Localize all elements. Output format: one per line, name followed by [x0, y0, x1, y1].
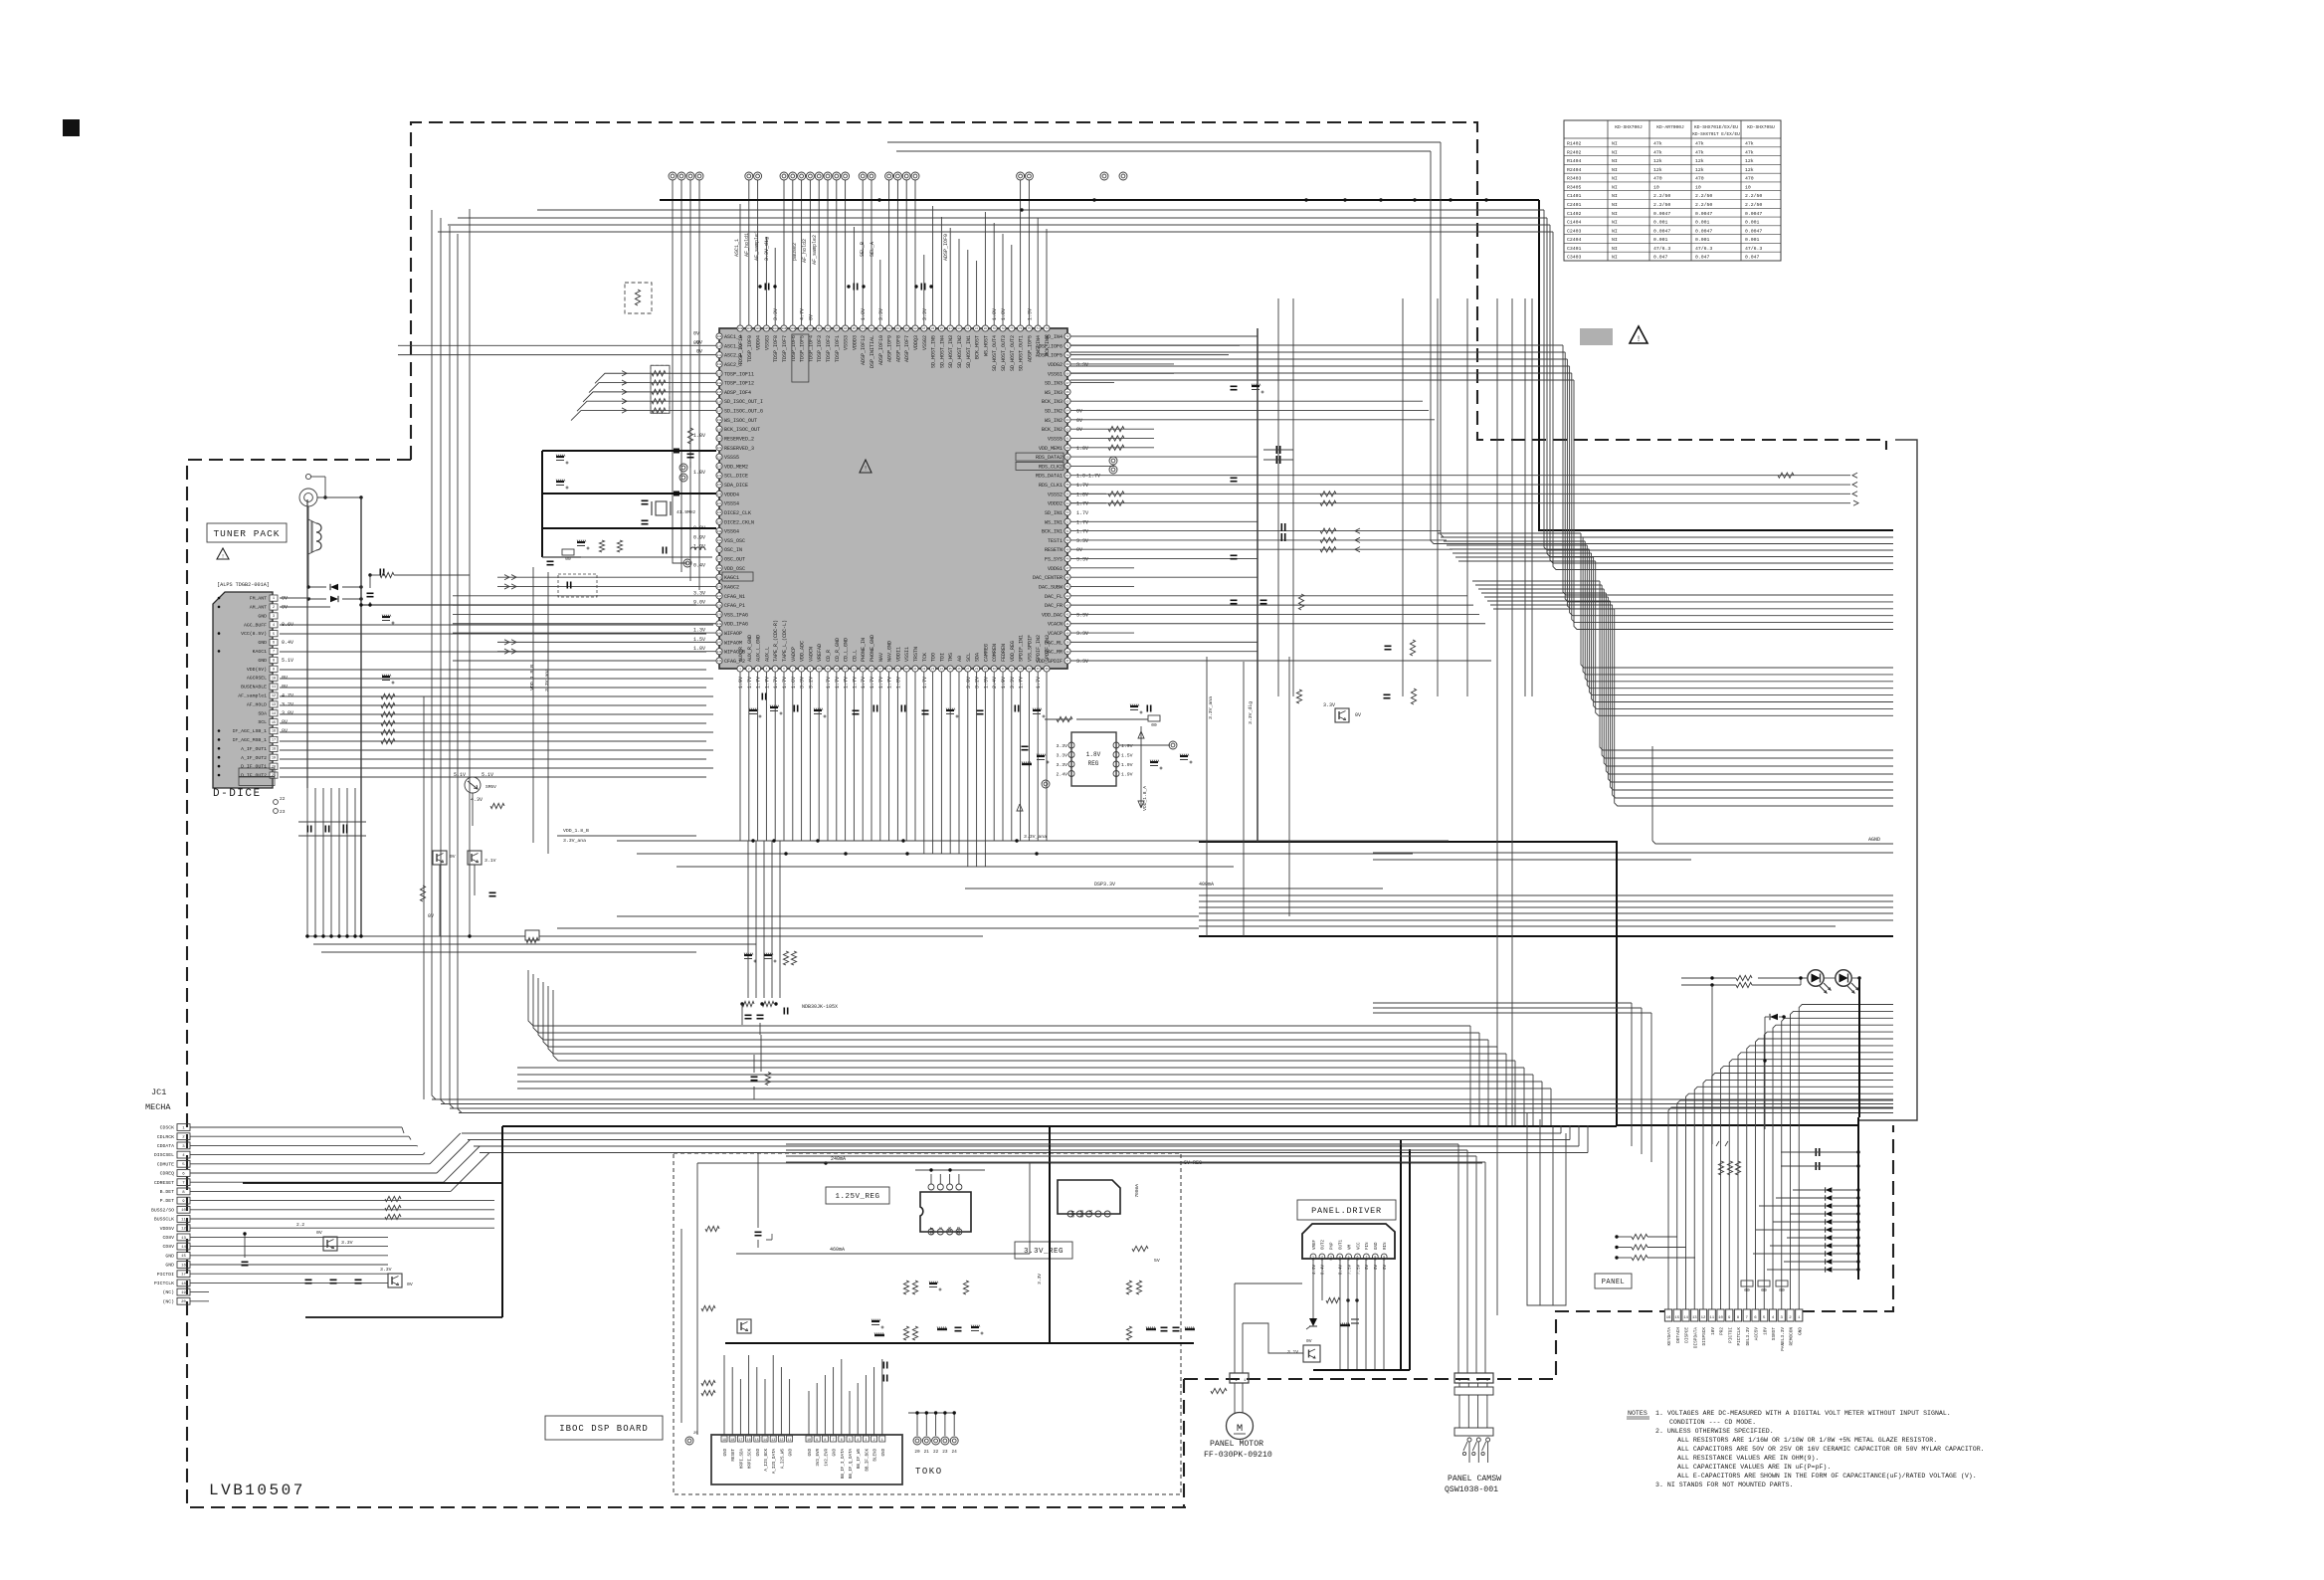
svg-text:16: 16 [181, 1264, 186, 1268]
svg-text:3.3V: 3.3V [1037, 1274, 1043, 1284]
svg-text:VDDG1: VDDG1 [1048, 566, 1063, 572]
connector PANEL 16-pin [1664, 1309, 1803, 1351]
svg-text:0V: 0V [316, 1230, 322, 1236]
svg-text:7: 7 [1365, 1256, 1367, 1260]
svg-text:PHONE_IN: PHONE_IN [861, 638, 867, 662]
svg-text:3.2V: 3.2V [282, 701, 293, 707]
svg-text:ALL CAPACITORS ARE 50V OR 25V: ALL CAPACITORS ARE 50V OR 25V OR 16V CER… [1677, 1446, 1985, 1453]
svg-text:OSC_IN: OSC_IN [724, 547, 742, 553]
svg-text:DISPSCK: DISPSCK [1702, 1327, 1707, 1346]
svg-text:3.3V: 3.3V [380, 1267, 392, 1273]
svg-text:19: 19 [272, 756, 276, 760]
svg-text:15: 15 [181, 1255, 186, 1259]
svg-text:VSS_IFAG: VSS_IFAG [724, 612, 748, 618]
IC U1 left pins 109-144 with labels [693, 331, 763, 666]
svg-text:3.3V: 3.3V [1076, 631, 1088, 637]
svg-text:RIN: RIN [1384, 1242, 1388, 1250]
svg-text:50: 50 [1065, 539, 1069, 542]
svg-text:59: 59 [1065, 456, 1069, 459]
svg-text:00: 00 [1761, 1287, 1767, 1293]
svg-text:TDSP_IOF5: TDSP_IOF5 [800, 335, 806, 362]
svg-text:IBOC DSP BOARD: IBOC DSP BOARD [559, 1424, 649, 1434]
svg-text:0V: 0V [808, 314, 814, 320]
wire fan group4 [1472, 581, 1893, 806]
svg-text:126: 126 [717, 494, 722, 496]
svg-text:DISCSEL: DISCSEL [154, 1152, 174, 1158]
svg-text:[ALPS TDGB2-001A]: [ALPS TDGB2-001A] [217, 582, 270, 588]
svg-text:4.7V: 4.7V [800, 308, 806, 320]
svg-text:96: 96 [844, 327, 848, 330]
svg-text:VADCP: VADCP [791, 647, 797, 662]
svg-text:105: 105 [764, 327, 769, 330]
svg-text:99: 99 [818, 327, 822, 330]
svg-text:48: 48 [1065, 558, 1069, 561]
svg-text:79: 79 [993, 327, 997, 330]
svg-text:0.0047: 0.0047 [1745, 228, 1762, 234]
svg-text:91: 91 [887, 327, 891, 330]
svg-text:6: 6 [1357, 1256, 1359, 1260]
svg-text:AUX_L: AUX_L [764, 647, 770, 662]
svg-text:ALL CAPACITANCE VALUES ARE IN: ALL CAPACITANCE VALUES ARE IN uF(P=pF). [1677, 1464, 1831, 1471]
board edge bracket right [1859, 440, 1917, 1120]
svg-text:NI: NI [1612, 149, 1618, 155]
svg-text:NI: NI [1612, 237, 1618, 243]
svg-text:3.3V: 3.3V [1323, 702, 1335, 708]
svg-text:VSS_SPDIF: VSS_SPDIF [1027, 635, 1033, 662]
svg-text:35: 35 [1037, 668, 1041, 671]
svg-text:10: 10 [1718, 1316, 1723, 1320]
svg-text:VDD5V: VDD5V [160, 1226, 175, 1232]
svg-text:CFAG_N1: CFAG_N1 [724, 594, 745, 600]
svg-text:SD_ISOC_OUT_I: SD_ISOC_OUT_I [724, 399, 763, 405]
JC1 wires to bus [190, 1127, 494, 1301]
svg-text:TRSTN: TRSTN [913, 647, 919, 662]
svg-text:AUX_L_GND: AUX_L_GND [756, 635, 762, 662]
svg-text:00: 00 [565, 556, 571, 562]
svg-text:pause2: pause2 [792, 243, 798, 261]
svg-text:AF_hold2: AF_hold2 [802, 239, 808, 263]
svg-text:C2401: C2401 [1567, 202, 1582, 208]
svg-text:NI: NI [1612, 202, 1618, 208]
svg-text:140: 140 [717, 623, 722, 626]
svg-text:VDDD4: VDDD4 [724, 492, 739, 497]
svg-text:R3403: R3403 [1567, 176, 1582, 182]
svg-text:47k: 47k [1653, 149, 1662, 155]
svg-text:KAGC1: KAGC1 [253, 649, 268, 655]
svg-text:67: 67 [1065, 382, 1069, 385]
svg-text:VSSG1: VSSG1 [1048, 371, 1063, 377]
svg-text:VDD94: VDD94 [756, 335, 762, 350]
svg-text:KEYDATA: KEYDATA [1667, 1327, 1672, 1346]
svg-text:TDSP_IOF12: TDSP_IOF12 [724, 381, 754, 387]
svg-text:56: 56 [1065, 484, 1069, 487]
svg-text:ADSP_IOF4: ADSP_IOF4 [724, 390, 751, 396]
svg-text:C1401: C1401 [1567, 193, 1582, 199]
svg-text:31: 31 [1001, 668, 1005, 671]
svg-text:3.3V: 3.3V [1076, 612, 1088, 618]
svg-text:10: 10 [1745, 184, 1751, 190]
svg-text:WS_HOST: WS_HOST [983, 335, 989, 356]
svg-text:0V: 0V [1076, 547, 1082, 553]
svg-text:VM: VM [1348, 1244, 1352, 1250]
svg-text:DSP3.3V: DSP3.3V [1094, 882, 1115, 888]
svg-text:1.9V: 1.9V [1121, 743, 1133, 749]
svg-text:NOTES: NOTES [1628, 1410, 1647, 1417]
svg-text:1.8V: 1.8V [895, 677, 901, 689]
svg-text:8: 8 [273, 660, 275, 664]
registration mark [63, 119, 80, 136]
svg-text:3.3V: 3.3V [1076, 557, 1088, 563]
svg-text:0.047: 0.047 [1695, 255, 1710, 261]
power rails below IC [557, 657, 1449, 936]
svg-text:R1404: R1404 [1567, 158, 1582, 164]
svg-text:118: 118 [717, 419, 722, 422]
svg-text:134: 134 [717, 567, 722, 570]
svg-text:AF_HOLD: AF_HOLD [247, 701, 267, 707]
svg-text:116: 116 [717, 400, 722, 403]
svg-text:25: 25 [949, 668, 953, 671]
svg-text:73: 73 [1045, 327, 1049, 330]
svg-text:12k: 12k [1695, 167, 1704, 173]
svg-text:32: 32 [1010, 668, 1014, 671]
tuner area bottom rail [305, 930, 983, 952]
svg-text:15: 15 [862, 668, 866, 671]
svg-text:57: 57 [1065, 475, 1069, 478]
svg-text:NI: NI [1612, 228, 1618, 234]
svg-text:30: 30 [993, 668, 997, 671]
LVB10507 label [209, 1481, 305, 1499]
D-DICE label [213, 788, 262, 800]
svg-text:NI: NI [1612, 193, 1618, 199]
svg-text:VDD_1.8_B: VDD_1.8_B [563, 828, 589, 834]
svg-text:1.7V: 1.7V [756, 677, 762, 689]
main board dashed outline (top section) [411, 122, 1886, 460]
svg-text:12k: 12k [1695, 158, 1704, 164]
svg-text:RDS_CLK2: RDS_CLK2 [1039, 464, 1063, 470]
svg-text:0V: 0V [1355, 712, 1361, 718]
svg-text:5V: 5V [1154, 1258, 1160, 1264]
svg-text:89: 89 [905, 327, 909, 330]
svg-text:BB_IF_I_DATA: BB_IF_I_DATA [842, 1449, 846, 1480]
svg-text:DAC_FL: DAC_FL [1045, 594, 1063, 600]
svg-text:8: 8 [824, 1439, 826, 1443]
svg-text:GND: GND [258, 658, 267, 664]
crystal X1 41.9MHz [642, 500, 696, 523]
svg-text:60: 60 [1065, 447, 1069, 450]
tuner pins 22 23 [274, 796, 286, 815]
svg-text:11: 11 [826, 668, 830, 671]
svg-text:12: 12 [835, 668, 839, 671]
svg-text:5: 5 [1348, 1256, 1350, 1260]
svg-text:1.7V: 1.7V [1076, 519, 1088, 525]
svg-text:102: 102 [790, 327, 795, 330]
svg-text:13: 13 [771, 1439, 775, 1443]
svg-text:1.8V: 1.8V [1076, 446, 1088, 452]
svg-text:0.0047: 0.0047 [1745, 211, 1762, 217]
svg-text:1.7V: 1.7V [852, 677, 858, 689]
wire bus lower-right group [1199, 895, 1893, 936]
svg-text:122: 122 [717, 456, 722, 459]
svg-text:9: 9 [273, 668, 275, 672]
svg-text:144: 144 [717, 660, 722, 663]
svg-text:TDSP_IOF10: TDSP_IOF10 [738, 335, 744, 365]
svg-text:ADSP_IOF5: ADSP_IOF5 [1027, 335, 1033, 362]
svg-text:C2404: C2404 [1567, 237, 1582, 243]
svg-text:47k: 47k [1695, 141, 1704, 147]
svg-text:GND: GND [1375, 1242, 1379, 1250]
svg-text:5: 5 [849, 1439, 851, 1443]
svg-text:4: 4 [273, 624, 275, 628]
svg-text:SD_HOST_IN3: SD_HOST_IN3 [948, 335, 954, 368]
svg-text:138: 138 [717, 604, 722, 607]
svg-text:1.7V: 1.7V [826, 677, 832, 689]
svg-text:86: 86 [931, 327, 935, 330]
svg-text:470: 470 [1745, 176, 1754, 182]
svg-text:4: 4 [857, 1439, 859, 1443]
svg-text:3V3_EVR: 3V3_EVR [817, 1449, 821, 1467]
svg-text:SD_HOST_OUT2: SD_HOST_OUT2 [1010, 335, 1016, 371]
svg-text:SCL_DICE: SCL_DICE [724, 474, 748, 480]
svg-text:0V: 0V [282, 596, 288, 602]
svg-text:CDMUTE: CDMUTE [157, 1161, 174, 1167]
svg-text:7.5V: 7.5V [1357, 1265, 1361, 1276]
svg-text:VADCN: VADCN [808, 647, 814, 662]
svg-text:DEL3.3V: DEL3.3V [1746, 1327, 1751, 1346]
svg-text:54: 54 [1065, 502, 1069, 505]
switch PANEL CAMSW QSW1038-001 [1445, 1373, 1501, 1494]
svg-text:TDO: TDO [931, 653, 937, 662]
svg-text:IF_AGC_LSB_1: IF_AGC_LSB_1 [232, 728, 267, 734]
svg-text:5V-REG: 5V-REG [1184, 1160, 1202, 1166]
vertical wires into IC top pins [740, 180, 1047, 325]
CFAG differential input wires with arrows [497, 574, 716, 654]
svg-text:1.7V: 1.7V [835, 677, 841, 689]
svg-text:2.2/50: 2.2/50 [1695, 202, 1712, 208]
svg-text:74: 74 [1037, 327, 1041, 330]
svg-text:WIFAOM: WIFAOM [724, 640, 742, 646]
svg-text:130: 130 [717, 530, 722, 533]
svg-text:WS_ISOC_OUT: WS_ISOC_OUT [724, 418, 757, 424]
svg-text:VSSS5: VSSS5 [1048, 436, 1063, 442]
svg-text:0.001: 0.001 [1695, 237, 1710, 243]
svg-text:65: 65 [1065, 400, 1069, 403]
svg-text:A_IF_OUT2: A_IF_OUT2 [241, 755, 267, 761]
svg-text:93: 93 [870, 327, 873, 330]
svg-text:A0: A0 [957, 656, 963, 662]
svg-text:139: 139 [717, 614, 722, 617]
svg-text:RDS_DATA2: RDS_DATA2 [1036, 455, 1063, 461]
svg-text:100: 100 [808, 327, 813, 330]
svg-text:119: 119 [717, 428, 722, 431]
svg-text:107: 107 [746, 327, 751, 330]
svg-text:3.3V: 3.3V [1010, 677, 1016, 689]
svg-text:VCC: VCC [1357, 1242, 1361, 1250]
svg-text:NI: NI [1612, 255, 1618, 261]
svg-text:OUT2: OUT2 [1322, 1239, 1326, 1250]
svg-text:SD_HOST_OUT1: SD_HOST_OUT1 [1019, 335, 1025, 371]
svg-text:0V: 0V [696, 349, 702, 355]
svg-text:PHONE_GND: PHONE_GND [870, 635, 875, 662]
svg-text:62: 62 [1065, 428, 1069, 431]
svg-text:3.3V: 3.3V [800, 677, 806, 689]
svg-text:1.7V: 1.7V [1036, 677, 1042, 689]
svg-text:WS_IN2: WS_IN2 [1045, 418, 1063, 424]
svg-text:20: 20 [914, 1450, 920, 1455]
svg-text:VSSS3: VSSS3 [844, 335, 850, 350]
svg-text:0.0047: 0.0047 [1653, 228, 1670, 234]
svg-text:12k: 12k [1745, 158, 1754, 164]
svg-text:VSSS2: VSSS2 [1048, 492, 1063, 497]
panel motor driver IC [1302, 1224, 1395, 1275]
svg-text:NI: NI [1612, 141, 1618, 147]
svg-text:1.7V: 1.7V [773, 677, 779, 689]
svg-text:VDDG2: VDDG2 [1048, 362, 1063, 368]
svg-text:GND: GND [724, 1449, 728, 1457]
svg-text:AGC_BUFF: AGC_BUFF [244, 622, 267, 628]
svg-text:GND: GND [882, 1449, 886, 1457]
svg-text:2.2: 2.2 [296, 1222, 304, 1228]
svg-text:1.7V: 1.7V [1076, 501, 1088, 507]
svg-text:PICTCLK: PICTCLK [1737, 1327, 1742, 1346]
svg-text:2.2/50: 2.2/50 [1745, 193, 1762, 199]
svg-text:VSSG3: VSSG3 [764, 335, 770, 350]
svg-text:0.001: 0.001 [1745, 220, 1760, 226]
vertical wires from IC bottom pins [740, 672, 1047, 867]
svg-text:0V: 0V [407, 1282, 413, 1287]
svg-text:TDSP_IOF4: TDSP_IOF4 [808, 335, 814, 362]
svg-text:VDDQ3: VDDQ3 [913, 335, 919, 350]
svg-text:SD_ISOC_OUT_G: SD_ISOC_OUT_G [724, 409, 763, 415]
svg-text:VDD_MEM2: VDD_MEM2 [724, 464, 748, 470]
svg-text:3: 3 [865, 1439, 867, 1443]
svg-text:1.8V: 1.8V [1086, 751, 1101, 758]
svg-text:WIFAOP: WIFAOP [724, 631, 742, 637]
svg-text:CD_L_GND: CD_L_GND [844, 638, 850, 662]
svg-text:142: 142 [717, 642, 722, 645]
svg-text:VSSI1: VSSI1 [904, 647, 910, 662]
svg-text:143: 143 [717, 651, 722, 654]
svg-text:BUSSCLK: BUSSCLK [154, 1217, 174, 1223]
wires descending to NDB filter [744, 841, 797, 998]
svg-text:14: 14 [853, 668, 857, 671]
svg-text:0V: 0V [282, 719, 288, 725]
svg-text:VDD_IFAG: VDD_IFAG [724, 622, 748, 628]
IC U1 right pins 37-72 with labels [1016, 333, 1100, 665]
component variant table [1564, 120, 1781, 261]
svg-text:KD-SHX701E/EX/EU: KD-SHX701E/EX/EU [1694, 124, 1738, 130]
svg-text:3.3V: 3.3V [1056, 743, 1067, 749]
svg-text:2.2/50: 2.2/50 [1653, 202, 1670, 208]
svg-text:GND: GND [258, 640, 267, 646]
svg-text:!: ! [221, 553, 224, 560]
top bus wires turning to right-edge fan group1 [438, 142, 1893, 570]
svg-text:92: 92 [878, 327, 882, 330]
svg-text:1.7V: 1.7V [922, 677, 928, 689]
svg-text:IN: IN [1090, 1210, 1094, 1216]
svg-text:22: 22 [280, 796, 286, 802]
svg-text:5.1V: 5.1V [282, 658, 293, 664]
svg-text:PNP: PNP [1331, 1242, 1335, 1250]
svg-text:SSRST: SSRST [1772, 1327, 1777, 1341]
svg-text:1.9V: 1.9V [1121, 762, 1133, 768]
VDD_1.8_B and 3.3V_ana vertical rails [529, 567, 550, 854]
top wire signal name labels [734, 231, 949, 265]
bottom horizontal bus bundle [432, 1099, 1893, 1153]
svg-text:C2403: C2403 [1567, 228, 1582, 234]
svg-text:SDA: SDA [975, 653, 981, 662]
tuner pack connector (ALPS TDGB2-001A) [213, 592, 293, 788]
svg-text:BCK_HOST: BCK_HOST [975, 335, 981, 359]
svg-text:460mA: 460mA [830, 1247, 845, 1253]
svg-text:111: 111 [717, 354, 722, 357]
svg-text:SDA_DICE: SDA_DICE [724, 483, 748, 489]
svg-text:MECHA: MECHA [145, 1102, 171, 1112]
capacitors on ADC/DAC pins below IC [749, 693, 1151, 718]
svg-text:47: 47 [1065, 567, 1069, 570]
svg-text:13: 13 [1692, 1316, 1697, 1320]
svg-text:FF-030PK-09210: FF-030PK-09210 [1204, 1451, 1272, 1460]
svg-text:P.DET: P.DET [160, 1198, 175, 1204]
3.3V_REG label box [1015, 1242, 1072, 1259]
svg-text:ALL RESISTANCE VALUES ARE IN O: ALL RESISTANCE VALUES ARE IN OHM(9). [1677, 1455, 1819, 1462]
svg-text:BB_IF_Q_DATA: BB_IF_Q_DATA [850, 1449, 854, 1480]
svg-text:DAC_CENTER: DAC_CENTER [1033, 575, 1063, 581]
IBOC discrete components [681, 1226, 1227, 1423]
wires from IC right pins [1070, 336, 1491, 661]
LVB10507 board dashed outline (left/bottom) [187, 460, 1186, 1507]
svg-text:ADSP_IOF9: ADSP_IOF9 [887, 335, 893, 362]
svg-text:5.1V: 5.1V [454, 772, 466, 778]
svg-text:112: 112 [717, 363, 722, 366]
bus from center to panel area turning down [517, 970, 1551, 1125]
svg-text:BCK_IN4: BCK_IN4 [1045, 335, 1051, 356]
svg-text:3.3V: 3.3V [1076, 362, 1088, 368]
svg-text:0V: 0V [282, 728, 288, 734]
svg-text:9: 9 [816, 1439, 818, 1443]
svg-text:SD_IN2: SD_IN2 [1045, 409, 1063, 415]
svg-text:SD_HOST_IN1: SD_HOST_IN1 [966, 335, 972, 368]
svg-text:81: 81 [975, 327, 979, 330]
svg-text:SEL_A: SEL_A [870, 242, 875, 257]
svg-text:BB_IF_WS: BB_IF_WS [858, 1449, 862, 1470]
svg-text:19: 19 [896, 668, 900, 671]
svg-text:11: 11 [272, 686, 276, 690]
1.25V_REG label box [826, 1187, 889, 1204]
svg-text:16: 16 [870, 668, 873, 671]
IBOC DSP board dashed outline [674, 1153, 1181, 1494]
svg-text:23: 23 [942, 1450, 948, 1455]
svg-text:2.2/50: 2.2/50 [1745, 202, 1762, 208]
svg-text:SPDIF_IN3: SPDIF_IN3 [1045, 635, 1051, 662]
svg-text:GND: GND [1798, 1327, 1803, 1335]
IC U1 top pins 73-108 with labels [737, 308, 1051, 371]
svg-text:SCL: SCL [258, 719, 267, 725]
svg-text:37: 37 [1065, 660, 1069, 663]
VDD rail labels mid-left [557, 828, 696, 844]
svg-text:HRPI_SDA: HRPI_SDA [740, 1449, 744, 1470]
svg-text:8: 8 [1374, 1256, 1376, 1260]
svg-text:R2402: R2402 [1567, 149, 1582, 155]
IBOC DSP BOARD label box [545, 1416, 663, 1440]
svg-text:16: 16 [1666, 1316, 1671, 1320]
svg-text:D-DICE: D-DICE [213, 788, 262, 800]
svg-text:113: 113 [717, 372, 722, 375]
svg-text:20: 20 [272, 765, 276, 769]
svg-text:RDS_CLK1: RDS_CLK1 [1039, 483, 1063, 489]
svg-text:0V: 0V [696, 339, 702, 345]
svg-text:OUT1: OUT1 [1340, 1239, 1344, 1250]
svg-text:PICTDI: PICTDI [157, 1272, 174, 1278]
